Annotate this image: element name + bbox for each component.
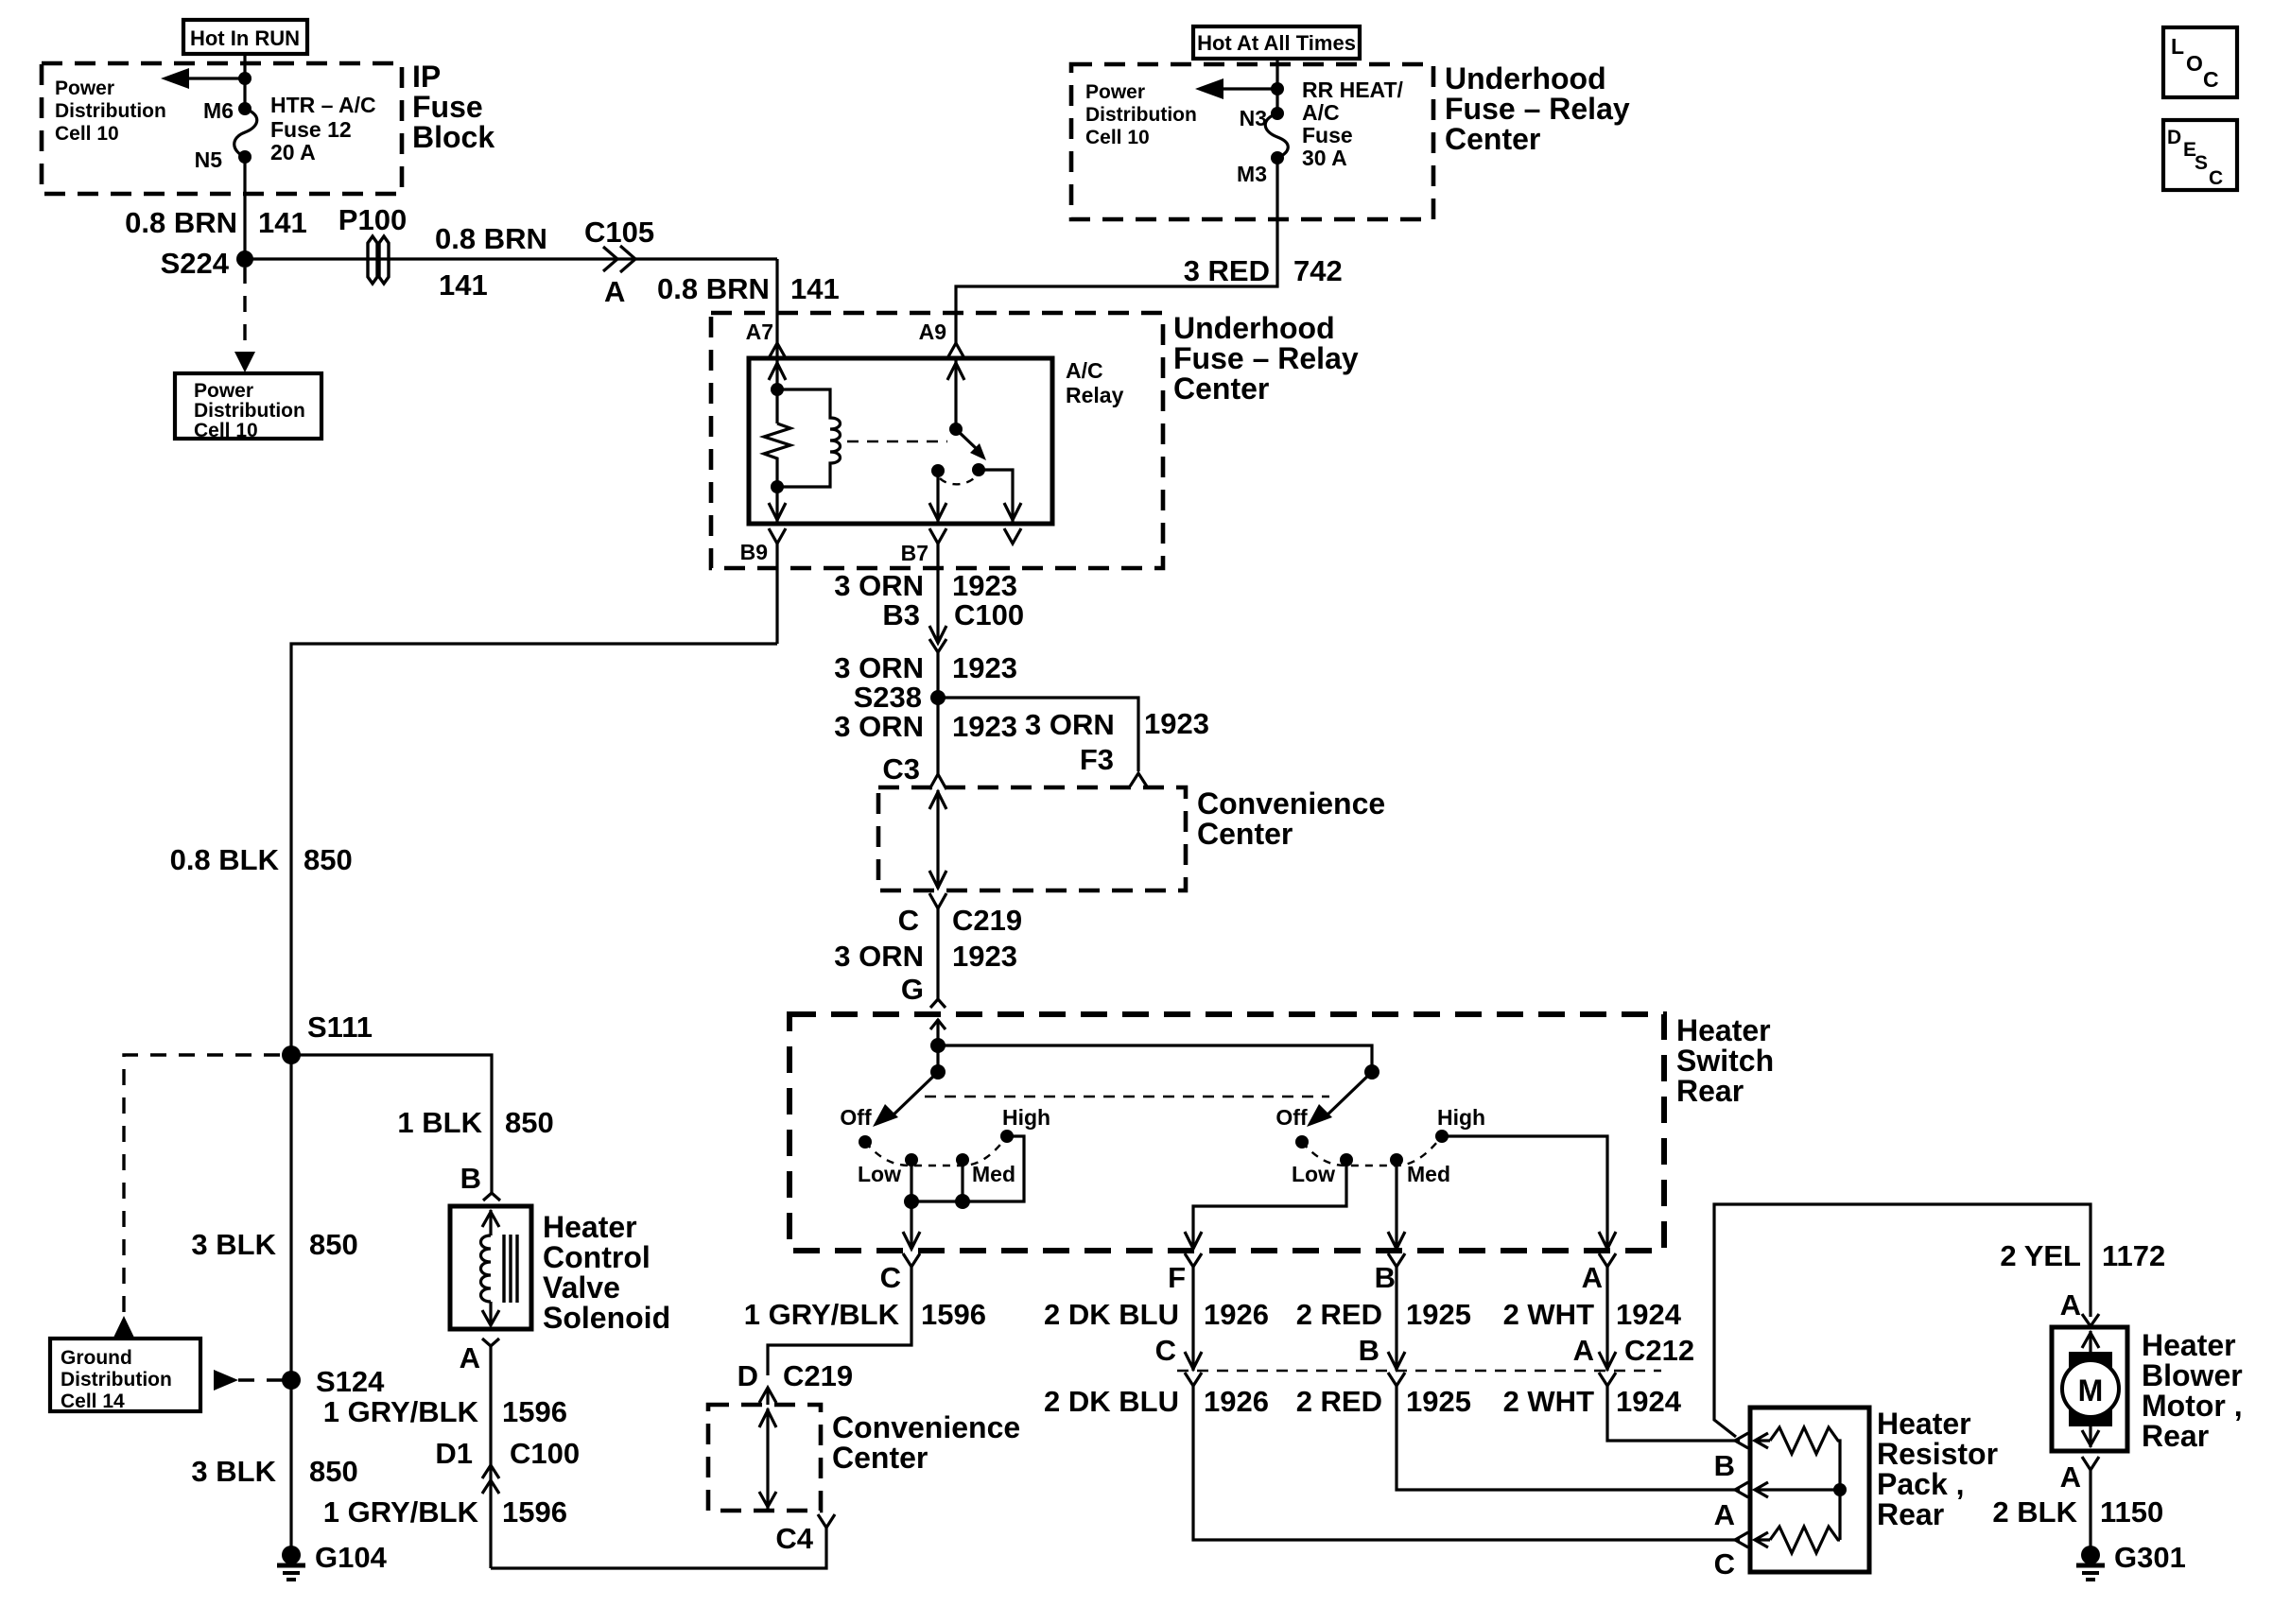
svg-text:Heater: Heater [2142, 1328, 2236, 1362]
svg-text:1925: 1925 [1406, 1298, 1471, 1331]
pin C internal arrow and resistor element bottom [1755, 1532, 1770, 1547]
svg-text:1924: 1924 [1616, 1385, 1682, 1418]
solenoid internal feed arrow [489, 1210, 492, 1235]
wire S224 to the right [245, 257, 777, 260]
wire from Hot In RUN down to fuse M6 [243, 54, 246, 109]
main ground wire S111 down to G104 [289, 1055, 292, 1546]
svg-text:S124: S124 [316, 1365, 385, 1398]
svg-text:Convenience: Convenience [832, 1410, 1020, 1444]
svg-text:C: C [1714, 1547, 1735, 1581]
svg-text:O: O [2186, 51, 2203, 76]
svg-text:1926: 1926 [1204, 1385, 1269, 1418]
wire through small convenience center [766, 1408, 769, 1509]
svg-text:Ground: Ground [61, 1347, 132, 1369]
svg-text:2 YEL: 2 YEL [2000, 1239, 2081, 1272]
svg-text:Power: Power [55, 78, 114, 99]
left link wire to High [911, 1136, 1024, 1201]
svg-text:A: A [460, 1341, 480, 1374]
left output C wire [910, 1201, 912, 1249]
dashed link S111 to Ground Distribution [124, 1055, 280, 1314]
svg-text:B9: B9 [740, 540, 768, 564]
svg-text:141: 141 [790, 272, 840, 305]
svg-text:C: C [880, 1261, 901, 1294]
Heater Blower Motor box [2052, 1327, 2127, 1451]
node: arrow branch dot [1271, 82, 1284, 95]
wire A (2 WHT) to resistor pin B [1607, 1386, 1740, 1441]
svg-text:Center: Center [1445, 122, 1540, 156]
svg-text:3 ORN: 3 ORN [834, 569, 924, 602]
unused throw pin connector below relay [1004, 528, 1021, 544]
svg-text:C212: C212 [1624, 1334, 1694, 1367]
svg-text:A: A [1714, 1498, 1735, 1531]
wire B down to C212 [1395, 1267, 1397, 1371]
node: resistor junction dot [1833, 1483, 1847, 1496]
svg-text:Underhood: Underhood [1173, 311, 1335, 345]
output C connector below switch box [903, 1253, 920, 1267]
svg-text:2 BLK: 2 BLK [1992, 1495, 2077, 1529]
wire NC contact down to B7 [936, 471, 939, 524]
svg-text:1150: 1150 [2100, 1495, 2163, 1529]
wire F down to C212 [1191, 1267, 1194, 1371]
svg-text:1923: 1923 [952, 940, 1017, 973]
svg-text:C: C [898, 904, 919, 937]
svg-text:Low: Low [1292, 1162, 1335, 1186]
svg-text:C: C [2203, 67, 2219, 92]
svg-text:S111: S111 [307, 1011, 373, 1044]
svg-text:C3: C3 [882, 752, 920, 786]
branch wire right to F3 [938, 698, 1138, 771]
svg-text:Rear: Rear [2142, 1419, 2209, 1453]
switch branch: A9 wire to pivot [954, 358, 957, 429]
motor internals: feed arrow [2089, 1331, 2091, 1361]
fuse M3 pin dot [1271, 151, 1284, 164]
motor ground arrow [2089, 1416, 2091, 1447]
svg-text:1923: 1923 [952, 569, 1017, 602]
node: coil bottom dot [771, 480, 784, 493]
svg-text:High: High [1437, 1105, 1485, 1130]
wire F (2 DK BLU) to resistor pin C [1193, 1386, 1740, 1540]
connector C212 dashed line [1177, 1370, 1661, 1373]
solenoid pin A connector [482, 1339, 499, 1346]
svg-text:G: G [901, 973, 924, 1006]
fuse RR HEAT/AC: N3 pin dot [1271, 107, 1284, 120]
node: common throw contact dot [972, 463, 985, 476]
Heater Resistor Pack box [1750, 1408, 1869, 1572]
IP Fuse Block dashed box [42, 63, 402, 194]
arrow to Power Distribution (left) [1220, 87, 1277, 90]
svg-text:G301: G301 [2114, 1541, 2186, 1574]
wire B (2 RED) to resistor pin A [1397, 1386, 1740, 1490]
svg-text:Off: Off [840, 1105, 872, 1130]
output A connector below switch box [1599, 1253, 1616, 1267]
svg-text:141: 141 [439, 268, 488, 302]
svg-text:Heater: Heater [1877, 1407, 1971, 1441]
svg-text:Fuse – Relay: Fuse – Relay [1445, 92, 1630, 126]
node: NC contact dot (to B7) [931, 464, 945, 477]
svg-text:1596: 1596 [502, 1495, 567, 1529]
svg-text:C100: C100 [510, 1437, 580, 1470]
A/C Relay box [749, 358, 1052, 524]
2 YEL wire: resistor pin B up and over to motor [1714, 1204, 2091, 1437]
pin A internal arrow and wire [1755, 1482, 1840, 1497]
wire down from Hot At All Times [1275, 59, 1278, 113]
svg-text:B: B [1375, 1261, 1396, 1294]
wire S238 down to C3 [936, 698, 939, 774]
svg-text:1925: 1925 [1406, 1385, 1471, 1418]
connector C219 pin C [929, 893, 946, 908]
right High wire right and down (A output) [1442, 1136, 1607, 1249]
wire bottom run to C4 riser [491, 1528, 826, 1568]
svg-text:0.8 BRN: 0.8 BRN [435, 222, 547, 255]
node: left armature pivot [930, 1064, 946, 1080]
svg-text:0.8 BRN: 0.8 BRN [657, 272, 770, 305]
svg-text:1596: 1596 [502, 1395, 567, 1428]
svg-text:850: 850 [309, 1455, 358, 1488]
svg-text:B: B [460, 1162, 481, 1195]
relay coil (arcs) [777, 389, 841, 487]
svg-text:C219: C219 [783, 1359, 853, 1392]
wire throw contact right and down [979, 470, 1013, 524]
relay coil resistor (zigzag) [764, 423, 790, 487]
svg-text:20 A: 20 A [270, 140, 316, 164]
svg-text:1924: 1924 [1616, 1298, 1682, 1331]
solenoid exit arrow [489, 1302, 492, 1325]
svg-text:Fuse: Fuse [412, 90, 483, 124]
node: left low junction dot [904, 1194, 919, 1209]
svg-text:3 ORN: 3 ORN [1025, 708, 1115, 741]
svg-text:Center: Center [1197, 817, 1293, 851]
svg-text:1172: 1172 [2102, 1239, 2165, 1272]
node: armature pivot dot [949, 423, 963, 436]
svg-text:0.8 BLK: 0.8 BLK [170, 843, 280, 876]
solenoid core bars [504, 1235, 517, 1303]
svg-text:2 WHT: 2 WHT [1503, 1385, 1595, 1418]
svg-text:M3: M3 [1237, 162, 1267, 186]
svg-text:A: A [2060, 1288, 2081, 1322]
svg-text:IP: IP [412, 60, 441, 94]
svg-text:1923: 1923 [1144, 707, 1209, 740]
wire A down to C212 [1605, 1267, 1608, 1371]
svg-text:D: D [737, 1359, 758, 1392]
right armature with arrowhead [1324, 1072, 1372, 1118]
svg-text:G104: G104 [315, 1541, 388, 1574]
left Med wire down [961, 1160, 963, 1201]
svg-text:1 GRY/BLK: 1 GRY/BLK [744, 1298, 900, 1331]
LOC box [2163, 27, 2237, 97]
svg-text:L: L [2171, 34, 2184, 59]
svg-text:Cell 10: Cell 10 [1085, 127, 1150, 148]
Power Distribution Cell 10 box [175, 373, 321, 439]
svg-text:Hot At All Times: Hot At All Times [1197, 31, 1356, 55]
svg-text:1 GRY/BLK: 1 GRY/BLK [323, 1495, 479, 1529]
ground G104 [282, 1546, 301, 1564]
svg-text:B: B [1714, 1449, 1735, 1482]
svg-text:Cell 10: Cell 10 [55, 123, 119, 145]
svg-text:S: S [2195, 152, 2208, 174]
dashed arrow Ground Distribution to S124 [238, 1378, 284, 1381]
svg-text:A: A [1582, 1261, 1603, 1294]
svg-text:Convenience: Convenience [1197, 786, 1385, 821]
svg-text:30 A: 30 A [1302, 146, 1347, 170]
svg-text:141: 141 [258, 206, 307, 239]
svg-text:Off: Off [1275, 1105, 1308, 1130]
svg-text:3 ORN: 3 ORN [834, 710, 924, 743]
output F connector below switch box [1185, 1253, 1202, 1267]
svg-text:Pack ,: Pack , [1877, 1467, 1965, 1501]
svg-text:Relay: Relay [1066, 383, 1124, 407]
svg-text:Cell 14: Cell 14 [61, 1391, 125, 1412]
svg-text:Control: Control [543, 1240, 651, 1274]
motor brushes [2069, 1352, 2112, 1372]
svg-text:B7: B7 [901, 541, 928, 565]
feed wire with arrow into box [936, 1019, 939, 1072]
svg-text:Low: Low [858, 1162, 901, 1186]
Convenience Center dashed box [878, 787, 1186, 890]
svg-text:Heater: Heater [1676, 1013, 1771, 1047]
svg-text:N3: N3 [1240, 106, 1267, 130]
svg-text:D1: D1 [435, 1437, 473, 1470]
svg-text:Med: Med [1407, 1162, 1450, 1186]
svg-text:850: 850 [304, 843, 353, 876]
svg-text:S238: S238 [854, 681, 922, 714]
svg-text:Rear: Rear [1676, 1074, 1744, 1108]
svg-text:1923: 1923 [952, 710, 1017, 743]
left armature with arrowhead [890, 1072, 938, 1118]
arrow to Power Distribution (left) [185, 77, 245, 79]
node: coil top dot [771, 383, 784, 396]
svg-text:Power: Power [1085, 81, 1145, 103]
motor pin A lower connector [2082, 1457, 2099, 1470]
svg-text:1 BLK: 1 BLK [397, 1106, 482, 1139]
svg-text:S224: S224 [161, 247, 230, 280]
svg-text:3 ORN: 3 ORN [834, 651, 924, 684]
svg-text:RR HEAT/: RR HEAT/ [1302, 78, 1404, 102]
svg-text:2 RED: 2 RED [1296, 1298, 1382, 1331]
splice S124 [282, 1371, 301, 1390]
svg-text:Distribution: Distribution [194, 400, 305, 422]
node: arrow branch dot [238, 72, 252, 85]
svg-text:A: A [2060, 1460, 2081, 1494]
svg-text:3 ORN: 3 ORN [834, 940, 924, 973]
dashed drop from S224 to Power Distribution [243, 268, 246, 352]
Convenience Center small dashed box [708, 1405, 821, 1511]
wire pin A down [489, 1346, 492, 1568]
node: left med junction dot [955, 1194, 970, 1209]
svg-text:B3: B3 [882, 598, 920, 631]
node: right armature pivot [1364, 1064, 1379, 1080]
svg-text:Switch: Switch [1676, 1044, 1774, 1078]
svg-text:Solenoid: Solenoid [543, 1301, 670, 1335]
svg-text:3 RED: 3 RED [1184, 254, 1270, 287]
svg-text:1596: 1596 [921, 1298, 986, 1331]
Underhood Fuse-Relay Center dashed box (relay) [711, 313, 1163, 568]
svg-text:Cell 10: Cell 10 [194, 420, 258, 441]
pin B internal arrow [1755, 1433, 1770, 1448]
svg-text:1 GRY/BLK: 1 GRY/BLK [323, 1395, 479, 1428]
svg-text:Fuse – Relay: Fuse – Relay [1173, 341, 1359, 375]
svg-text:A/C: A/C [1302, 100, 1340, 125]
wire C219 down to G [936, 908, 939, 999]
fuse N5 pin dot [238, 150, 252, 164]
svg-text:1923: 1923 [952, 651, 1017, 684]
ground G301 [2081, 1546, 2100, 1564]
svg-text:A/C: A/C [1066, 358, 1103, 383]
wire C100 down to S238 [936, 652, 939, 698]
svg-text:M6: M6 [203, 98, 234, 123]
fuse element S-curve [1265, 113, 1288, 158]
svg-text:Med: Med [972, 1162, 1015, 1186]
svg-text:Center: Center [832, 1441, 928, 1475]
svg-text:2 WHT: 2 WHT [1503, 1298, 1595, 1331]
wire through convenience center [936, 790, 939, 889]
svg-text:Valve: Valve [543, 1270, 620, 1304]
svg-text:C: C [2209, 167, 2223, 189]
dashed mechanical link coil to armature [847, 441, 947, 443]
Heater Control Valve Solenoid box [450, 1206, 531, 1329]
Heater Switch Rear dashed box [789, 1014, 1664, 1251]
node: feed junction dot [930, 1038, 946, 1053]
svg-text:1926: 1926 [1204, 1298, 1269, 1331]
wire B9 down, left, down to S111 (0.8 BLK 850) [291, 644, 777, 1055]
svg-text:P100: P100 [338, 203, 407, 236]
svg-text:2 DK BLU: 2 DK BLU [1044, 1385, 1179, 1418]
svg-text:F3: F3 [1080, 743, 1114, 776]
right Med wire down (B output) [1395, 1160, 1397, 1249]
Ground Distribution Cell 14 box [50, 1339, 200, 1411]
svg-text:Distribution: Distribution [1085, 104, 1197, 126]
svg-text:Distribution: Distribution [61, 1369, 172, 1391]
svg-text:2 DK BLU: 2 DK BLU [1044, 1298, 1179, 1331]
solenoid coil [481, 1235, 492, 1302]
svg-text:M: M [2078, 1373, 2104, 1408]
svg-text:A: A [604, 275, 625, 308]
Underhood Fuse-Relay Center dashed box (fuse) [1071, 64, 1433, 219]
svg-text:Center: Center [1173, 371, 1269, 406]
svg-text:3 BLK: 3 BLK [191, 1228, 276, 1261]
svg-text:Fuse 12: Fuse 12 [270, 117, 352, 142]
wire from top row down to A7 [775, 259, 778, 358]
svg-text:C219: C219 [952, 904, 1022, 937]
svg-text:A7: A7 [746, 320, 773, 344]
svg-text:Heater: Heater [543, 1210, 637, 1244]
svg-text:N5: N5 [195, 147, 223, 172]
svg-text:C: C [1155, 1334, 1176, 1367]
motor armature circle with M [2062, 1360, 2119, 1417]
svg-text:C105: C105 [584, 216, 654, 249]
svg-text:2 RED: 2 RED [1296, 1385, 1382, 1418]
svg-text:C100: C100 [954, 598, 1024, 631]
svg-text:850: 850 [505, 1106, 554, 1139]
svg-text:B: B [1359, 1334, 1379, 1367]
coil branch: left vertical wire inside relay [775, 358, 778, 423]
svg-text:HTR – A/C: HTR – A/C [270, 93, 376, 117]
dashed wiping arc between contacts [940, 477, 975, 484]
output B connector below switch box [1388, 1253, 1405, 1267]
fuse HTR A/C: M6 pin dot [238, 102, 252, 115]
svg-text:Power: Power [194, 380, 253, 402]
dashed mechanical link between armatures [925, 1096, 1329, 1098]
svg-text:850: 850 [309, 1228, 358, 1261]
wire to G301 [2089, 1470, 2091, 1547]
wire S111 right and down to solenoid pin B [291, 1055, 492, 1193]
svg-text:Resistor: Resistor [1877, 1437, 1998, 1471]
Hot At All Times flag box [1193, 26, 1360, 59]
right dashed wiper arc [1302, 1136, 1442, 1166]
DESC box [2163, 120, 2237, 190]
svg-text:Motor ,: Motor , [2142, 1389, 2243, 1423]
left Low wire down [910, 1160, 912, 1201]
svg-text:D: D [2167, 127, 2181, 148]
right Low wire down and left to F output [1193, 1160, 1346, 1249]
Hot In RUN flag box [183, 20, 307, 54]
relay armature with arrowhead [956, 429, 977, 449]
wire M3 down, corner, left to A9 [956, 158, 1277, 343]
svg-text:0.8 BRN: 0.8 BRN [125, 206, 237, 239]
wire N5 down to S224 [243, 157, 246, 259]
svg-text:A: A [1573, 1334, 1594, 1367]
wire to right switch [938, 1045, 1372, 1072]
svg-text:Blower: Blower [2142, 1358, 2243, 1392]
svg-text:High: High [1002, 1105, 1050, 1130]
svg-text:742: 742 [1293, 254, 1343, 287]
svg-text:Underhood: Underhood [1445, 61, 1606, 95]
svg-text:F: F [1168, 1261, 1186, 1294]
svg-text:C4: C4 [775, 1522, 813, 1555]
wire coil bottom to B9 arrow [775, 487, 778, 524]
svg-text:A9: A9 [919, 320, 946, 344]
wire C down and left to D/C219 [768, 1267, 911, 1375]
svg-text:Block: Block [412, 120, 495, 154]
svg-text:Fuse: Fuse [1302, 123, 1353, 147]
svg-text:3 BLK: 3 BLK [191, 1455, 276, 1488]
svg-text:Distribution: Distribution [55, 100, 166, 122]
left dashed wiper arc [865, 1136, 1007, 1166]
resistor element top [1770, 1427, 1840, 1540]
svg-text:Hot In RUN: Hot In RUN [190, 26, 300, 50]
fuse element S-curve [234, 109, 257, 157]
svg-text:Rear: Rear [1877, 1497, 1944, 1531]
